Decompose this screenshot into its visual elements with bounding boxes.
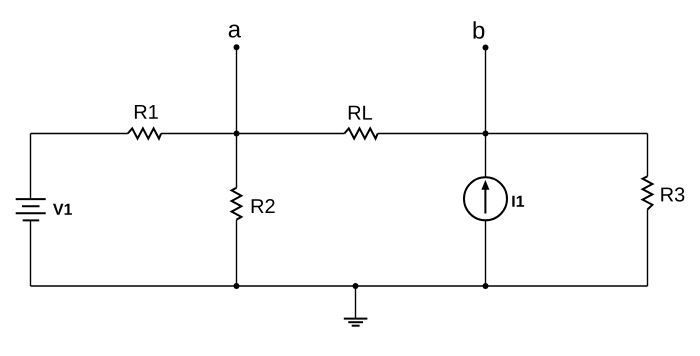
label V1 (53, 204, 72, 215)
wire top: V1 to R1 (31, 133, 128, 135)
wire right: corner to R3 top (647, 134, 649, 177)
wire right: R3 bottom to bottom-right corner (647, 209, 649, 286)
label b (474, 21, 485, 39)
node a terminal dot (234, 44, 240, 50)
label a (229, 25, 241, 38)
junction dot ground / bottom wire (353, 283, 359, 289)
wire: node b junction to I1 top (485, 134, 487, 178)
wire left: V1 bottom to bottom-left corner (30, 220, 32, 286)
wire: node a junction to R2 top (236, 134, 238, 188)
current source I1 (464, 177, 507, 220)
resistor R2 (232, 188, 242, 220)
junction dot node a / bottom wire (234, 283, 240, 289)
junction dot node b / bottom wire (483, 283, 489, 289)
resistor R1 (128, 128, 161, 138)
wire: I1 bottom to bottom wire (485, 220, 487, 286)
resistor R3 (643, 176, 653, 209)
label R1 (135, 105, 158, 119)
wire top: R1 to node a junction (161, 133, 236, 135)
wire bottom: ground node to node a (237, 285, 356, 287)
node b terminal dot (483, 45, 489, 51)
wire: ground stem (355, 286, 357, 319)
wire top: RL to node b junction (378, 133, 486, 135)
resistor RL (344, 128, 377, 138)
wire top: node a junction to RL (237, 133, 345, 135)
label RL (349, 106, 372, 120)
wire: R2 bottom to bottom wire (236, 220, 238, 286)
wire bottom: node b to ground node (356, 285, 486, 287)
wire top: node b junction to top-right corner (486, 133, 648, 135)
wire: node b stem (485, 48, 487, 134)
wire bottom: bottom-right corner to node b (486, 285, 648, 287)
label R3 (661, 187, 684, 201)
label R2 (252, 199, 275, 213)
voltage source V1 (battery) (16, 199, 46, 220)
wire bottom: node a to bottom-left corner (31, 285, 237, 287)
ground (344, 319, 368, 326)
wire left: top-left corner to V1 top (30, 134, 32, 200)
wire: node a stem (236, 47, 238, 133)
junction dot node a / top wire (234, 131, 240, 137)
junction dot node b / top wire (483, 131, 489, 137)
label I1 (512, 196, 524, 207)
